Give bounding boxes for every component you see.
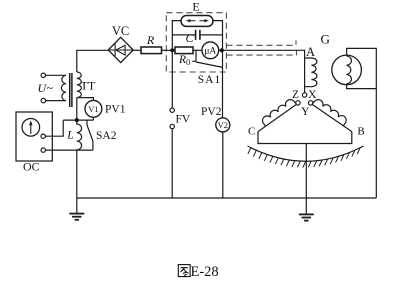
terminal: supply bottom xyxy=(41,98,45,102)
svg-text:G: G xyxy=(321,31,330,46)
winding C coil xyxy=(262,100,296,127)
rectifier VC diode xyxy=(108,44,133,57)
wire: secondary bottom down to L/SA2 node xyxy=(76,98,78,121)
oscilloscope OC box xyxy=(16,112,52,161)
capacitor C plates xyxy=(196,30,200,40)
switch SA1 (shorting switch across uA meter) xyxy=(192,50,222,67)
svg-text:Z: Z xyxy=(292,89,299,101)
svg-text:Y: Y xyxy=(301,106,310,118)
node: R / R0 / tube rail / FV junction xyxy=(170,48,174,52)
earth hatching under arc xyxy=(248,148,360,168)
caption figure char (CJK drawn as paths) xyxy=(178,265,190,277)
voltmeter PV1 xyxy=(85,100,102,117)
terminal Z xyxy=(296,101,300,105)
svg-text:X: X xyxy=(308,89,317,101)
svg-text:FV: FV xyxy=(176,114,191,126)
discharge tube E envelope xyxy=(181,16,213,27)
ground symbol center xyxy=(299,214,314,220)
svg-text:L: L xyxy=(66,130,73,142)
OC meter dial xyxy=(22,119,40,137)
E-tube/cap/meter shield dashed box xyxy=(166,13,226,72)
terminal X xyxy=(302,93,306,97)
ground symbol left xyxy=(69,214,84,220)
wire: OC top terminal link xyxy=(45,120,63,136)
svg-text:V2: V2 xyxy=(218,120,228,130)
svg-text:E-28: E-28 xyxy=(191,264,219,280)
star point tap to ground xyxy=(305,144,307,215)
winding B coil xyxy=(312,100,346,126)
wire: secondary bottom to voltmeter PV1 xyxy=(77,98,94,101)
discharge tube E electrodes (arrows) xyxy=(190,20,206,22)
wire: PV2 to bottom bus xyxy=(222,132,224,198)
terminal: supply top xyxy=(41,73,45,77)
wire: OC bottom terminal to L/SA2 bottom xyxy=(45,149,93,151)
wire: R to node/R0 xyxy=(162,49,176,51)
rectifier VC diamond xyxy=(108,37,133,62)
wire: U~ bottom terminal to transformer primary xyxy=(45,100,66,102)
winding B edge xyxy=(312,104,352,131)
node: secondary / OC / L / SA2 junction xyxy=(75,118,79,122)
shielded test lead dashed lines to winding A xyxy=(226,40,296,55)
wire: node down to voltmeter PV2 xyxy=(222,50,224,118)
generator G circle xyxy=(332,55,362,85)
generator G internal winding xyxy=(346,56,351,84)
svg-text:SA1: SA1 xyxy=(198,74,221,86)
svg-text:SA2: SA2 xyxy=(96,130,117,142)
svg-text:B: B xyxy=(357,125,364,137)
voltmeter PV2 xyxy=(216,118,230,132)
right rail from tube to main node xyxy=(213,21,223,51)
left rail node to discharge tube E and capacitor C xyxy=(172,21,181,51)
svg-text:V1: V1 xyxy=(88,104,98,114)
wire: VC to resistor R xyxy=(133,49,141,51)
transformer TT core xyxy=(70,73,72,107)
wire: U~ top terminal to transformer primary xyxy=(45,74,66,76)
protective gap FV terminals xyxy=(170,108,174,112)
node line: OC link, L top, SA2 top xyxy=(63,119,93,121)
svg-text:E: E xyxy=(192,0,199,14)
wire: R0 to microammeter xyxy=(193,49,202,51)
wire: down to left ground and bottom bus xyxy=(76,150,78,213)
winding A coil xyxy=(305,58,317,87)
switch SA2 xyxy=(87,120,93,150)
svg-text:TT: TT xyxy=(81,79,96,93)
junction dots xyxy=(75,48,224,122)
winding C edge xyxy=(258,104,297,131)
wire: G loop to right-side down conductor xyxy=(347,48,377,198)
transformer TT primary winding xyxy=(61,75,66,100)
protective gap FV wires xyxy=(171,50,173,198)
svg-text:OC: OC xyxy=(23,160,40,174)
machine body earth arc xyxy=(248,146,364,161)
transformer TT secondary winding xyxy=(77,72,82,98)
wire: secondary top up and right to rectifier VC xyxy=(77,50,108,72)
svg-text:PV2: PV2 xyxy=(201,106,222,118)
svg-text:~: ~ xyxy=(47,81,54,95)
svg-text:R: R xyxy=(146,33,155,47)
OC terminals xyxy=(41,134,45,138)
resistor R xyxy=(141,47,162,54)
svg-text:C: C xyxy=(248,125,255,137)
svg-text:VC: VC xyxy=(112,24,129,38)
resistor R0 xyxy=(175,47,193,54)
svg-text:PV1: PV1 xyxy=(105,104,126,116)
wire: PV1 bottom to node line xyxy=(92,117,94,120)
terminal Y xyxy=(308,101,312,105)
microammeter PA (uA) xyxy=(202,42,219,59)
wire: microammeter to winding A with corner down xyxy=(219,50,305,93)
inductor L xyxy=(77,120,82,150)
svg-text:μA: μA xyxy=(204,47,216,57)
capacitor C wires xyxy=(172,34,222,36)
OC meter needle xyxy=(30,123,32,134)
bottom ground bus xyxy=(77,197,377,199)
winding frame baseline xyxy=(258,132,352,144)
svg-text:C: C xyxy=(185,31,194,45)
svg-text:A: A xyxy=(306,45,315,59)
node: uA / tube rail / PV2 junction xyxy=(220,48,224,52)
